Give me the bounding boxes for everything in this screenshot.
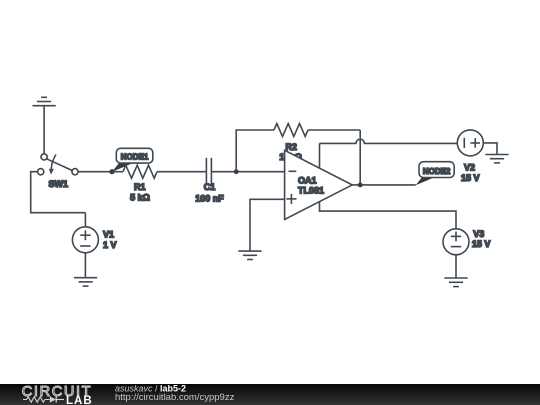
- wire C1 to op-amp inverting input: [211, 171, 284, 173]
- ground (right of V2): [485, 155, 508, 163]
- svg-text:15 V: 15 V: [461, 173, 480, 183]
- ground (under + input): [238, 251, 261, 259]
- svg-text:TL081: TL081: [298, 186, 324, 196]
- svg-text:SW1: SW1: [49, 179, 69, 189]
- svg-text:NODE1: NODE1: [121, 153, 149, 162]
- ground (under V1): [74, 278, 97, 286]
- svg-text:R2: R2: [285, 142, 297, 152]
- ground (under V3): [444, 278, 467, 287]
- wire to V2 with hop over feedback: [320, 139, 458, 143]
- wire feedback down to output: [359, 130, 361, 185]
- source V1: [72, 213, 116, 278]
- wire op-amp + input to ground: [250, 199, 285, 251]
- junction (feedback tap): [234, 169, 239, 174]
- wire op-amp output: [352, 184, 416, 186]
- footer title text: [115, 384, 235, 403]
- svg-text:1 V: 1 V: [103, 240, 117, 250]
- resistor R1: [112, 165, 206, 202]
- source V3: [443, 229, 490, 278]
- svg-text:V1: V1: [103, 230, 114, 240]
- svg-text:C1: C1: [204, 182, 216, 192]
- resistor R2: [274, 124, 360, 163]
- svg-text:100 nF: 100 nF: [195, 193, 224, 203]
- svg-text:NODE2: NODE2: [423, 167, 451, 176]
- svg-text:5 kΩ: 5 kΩ: [130, 192, 150, 202]
- CircuitLab logo: [22, 384, 93, 405]
- op-amp OA1 TL081: [285, 150, 353, 219]
- wire op-amp V- pin down to V3: [320, 201, 457, 229]
- svg-text:R1: R1: [134, 182, 146, 192]
- wire feedback up: [236, 130, 274, 172]
- ground (top-left, pointing up): [33, 97, 56, 105]
- svg-text:OA1: OA1: [298, 175, 317, 185]
- source V2: [457, 130, 497, 183]
- wire ground to SW1: [43, 106, 45, 154]
- footer bar: [0, 384, 540, 405]
- node NODE1 flag: [109, 148, 152, 174]
- svg-text:15 V: 15 V: [472, 239, 491, 249]
- svg-text:V2: V2: [464, 162, 475, 172]
- node NODE2 flag: [416, 162, 455, 186]
- wire SW1 right to NODE1: [78, 171, 112, 173]
- wire SW1 left down to V1: [31, 172, 86, 213]
- wire op-amp V+ pin up: [319, 143, 321, 168]
- junction (output/feedback): [358, 183, 363, 188]
- switch SW1: [38, 154, 78, 189]
- capacitor C1: [195, 158, 224, 204]
- svg-text:V3: V3: [473, 229, 484, 239]
